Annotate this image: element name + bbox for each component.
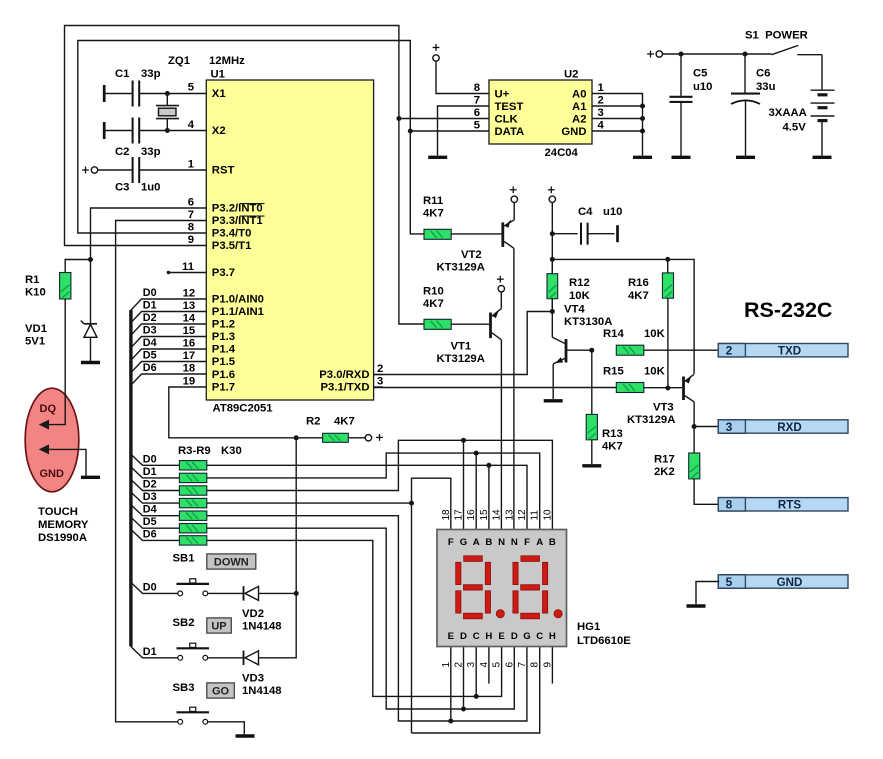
wire R16 to VT3 base node [667, 298, 669, 388]
wire segment D0 row to pins 15/12 [207, 465, 527, 529]
node DATA junction [408, 129, 413, 134]
svg-text:VD1: VD1 [25, 323, 47, 335]
svg-text:P3.7: P3.7 [212, 267, 235, 279]
GND arrow and wire to ground [39, 444, 49, 454]
svg-text:A: A [536, 537, 543, 548]
wire node to R2 [296, 437, 322, 439]
svg-text:B: B [485, 537, 492, 548]
svg-text:5V1: 5V1 [25, 336, 45, 348]
svg-text:F: F [524, 537, 530, 548]
wire P3.7 stub [169, 272, 207, 274]
svg-text:N: N [498, 537, 505, 548]
svg-text:10: 10 [542, 509, 553, 521]
svg-text:2: 2 [598, 94, 604, 106]
svg-text:U+: U+ [495, 88, 510, 100]
svg-text:P3.1/TXD: P3.1/TXD [321, 382, 370, 394]
svg-text:7: 7 [474, 94, 480, 106]
svg-text:18: 18 [441, 509, 452, 521]
svg-text:1N4148: 1N4148 [242, 685, 282, 697]
wire SB3 to ground [208, 722, 244, 734]
svg-text:VT2: VT2 [461, 249, 482, 261]
wire segment D2 row to pins 17/10 [207, 440, 553, 529]
svg-text:A0: A0 [572, 88, 586, 100]
wire R2 node down to VD2/VD3 [295, 438, 297, 594]
node GND junction [640, 129, 645, 134]
wire P1.5 to bus (D5) [131, 362, 206, 373]
svg-text:DS1990A: DS1990A [38, 532, 87, 544]
node C4 junction [550, 231, 555, 236]
svg-text:9: 9 [188, 234, 194, 246]
wire P1.1 to bus (D1) [131, 312, 206, 323]
svg-text:16: 16 [183, 338, 196, 350]
svg-text:C: C [473, 631, 480, 642]
svg-text:C6: C6 [756, 68, 770, 80]
node C6 junction [743, 52, 748, 57]
svg-text:D: D [460, 631, 467, 642]
svg-text:9: 9 [542, 662, 553, 668]
eeprom U2 24C04 [489, 80, 592, 144]
svg-text:P3.3/INT1: P3.3/INT1 [212, 215, 263, 227]
svg-text:VD3: VD3 [242, 673, 264, 685]
wire RXD node to RXD bar [694, 426, 719, 428]
ground C5 [672, 156, 691, 159]
display top pin numbers 18-10 [441, 509, 554, 521]
capacitor C2 33p [103, 122, 106, 139]
capacitor C6 33u (electrolytic) [744, 54, 746, 93]
wire segment D5 row to pins 2/6 [207, 528, 515, 709]
svg-text:8: 8 [474, 82, 480, 94]
svg-text:AT89C2051: AT89C2051 [213, 403, 273, 415]
svg-text:C3: C3 [115, 182, 129, 194]
connector pin 3 RXD [718, 420, 848, 434]
wire pin9 stub (H) [551, 647, 553, 684]
svg-text:15: 15 [479, 509, 490, 521]
wire pin15 [488, 465, 490, 529]
wire P3.1/TXD to R15 [374, 387, 617, 389]
wire VT4 collector to R13 [591, 350, 593, 414]
svg-text:A1: A1 [572, 101, 586, 113]
wire VD1 to ground [90, 337, 92, 361]
svg-text:14: 14 [183, 313, 196, 325]
wire R1 to touch memory DQ [45, 299, 65, 425]
svg-text:12: 12 [183, 288, 196, 300]
svg-text:C2: C2 [115, 146, 129, 158]
svg-text:VD2: VD2 [242, 608, 264, 620]
svg-text:D4: D4 [143, 504, 157, 516]
wire pin2 [463, 647, 465, 710]
button cap UP [207, 618, 232, 633]
button cap GO [207, 683, 235, 698]
svg-text:4K7: 4K7 [602, 441, 623, 453]
wire pin1 [450, 647, 452, 722]
svg-text:4: 4 [188, 119, 195, 131]
diode VD3 1N4148 [244, 651, 259, 665]
svg-text:VT1: VT1 [451, 341, 472, 353]
svg-text:N: N [511, 537, 518, 548]
wire segment D4 row to pins 1/7 [207, 516, 527, 721]
svg-text:P3.2/INT0: P3.2/INT0 [212, 203, 263, 215]
wire R15 to VT3 base [644, 387, 682, 389]
wire VD2 node to VD3 [259, 593, 296, 657]
svg-text:1: 1 [188, 158, 194, 170]
svg-text:8: 8 [726, 498, 733, 512]
wire pin17 [463, 440, 465, 529]
svg-text:10K: 10K [644, 328, 666, 340]
svg-text:H: H [485, 631, 492, 642]
svg-text:2: 2 [454, 662, 465, 668]
node pin2 junction [461, 707, 466, 712]
ground VT4 [544, 399, 563, 402]
U1 pin name labels [212, 88, 264, 394]
resistor R10 4K7 [424, 319, 451, 329]
svg-text:u10: u10 [693, 81, 712, 93]
svg-text:6: 6 [504, 662, 515, 668]
wire P3.5/T1 loop to R10 (pin 9 net) [65, 26, 425, 325]
ground U2 [633, 156, 652, 159]
svg-text:A2: A2 [572, 113, 586, 125]
wire U2 A0-GND to ground rail [592, 94, 643, 156]
svg-text:D2: D2 [143, 312, 157, 324]
svg-text:2K2: 2K2 [654, 466, 675, 478]
terminal +V for U2 U+ [433, 44, 440, 61]
resistor R12 10K [551, 259, 553, 273]
svg-text:3: 3 [598, 107, 604, 119]
svg-text:7: 7 [188, 209, 194, 221]
svg-text:RXD: RXD [777, 421, 801, 434]
svg-text:D3: D3 [143, 325, 157, 337]
svg-text:4K7: 4K7 [423, 208, 444, 220]
svg-text:2: 2 [726, 344, 733, 358]
wire +V to U+ [436, 61, 489, 94]
svg-text:33p: 33p [141, 146, 161, 158]
wire P3.2/INT0 to R1/VD1 node [91, 208, 207, 260]
transistor VT2 KT3129A (PNP) [503, 202, 514, 248]
overline INT0 [240, 203, 265, 205]
wire GND bar to ground [696, 582, 719, 605]
svg-text:MEMORY: MEMORY [38, 519, 89, 531]
wire R17 to RTS bar [694, 479, 719, 504]
resistor R7 (array row D4) [131, 505, 180, 516]
resistor R8 (array row D5) [131, 517, 180, 528]
ground SB3 [236, 734, 255, 737]
ground C6 [736, 156, 755, 159]
node A2 junction [640, 116, 645, 121]
svg-text:RTS: RTS [778, 499, 801, 512]
svg-text:P1.0/AIN0: P1.0/AIN0 [212, 294, 264, 306]
svg-text:16: 16 [466, 509, 477, 521]
svg-text:P1.7: P1.7 [212, 382, 235, 394]
svg-text:R11: R11 [423, 195, 443, 207]
svg-text:P1.6: P1.6 [212, 369, 235, 381]
button cap DOWN [207, 554, 256, 569]
microcontroller U1 AT89C2051 [206, 80, 373, 400]
wire node to R1 [65, 260, 90, 273]
svg-text:X1: X1 [212, 88, 226, 100]
svg-text:11: 11 [530, 510, 541, 521]
svg-text:DQ: DQ [40, 403, 57, 415]
svg-text:17: 17 [454, 509, 465, 521]
node X1 junction [165, 91, 170, 96]
svg-text:K30: K30 [221, 445, 242, 457]
svg-text:14: 14 [492, 509, 503, 521]
svg-text:D1: D1 [143, 300, 157, 312]
decimal point 1 [496, 610, 504, 618]
svg-text:DATA: DATA [495, 126, 525, 138]
wire pin3 [475, 647, 477, 697]
resistor R1 K10 [60, 273, 71, 300]
wire segment D1 row to pins 16/11 [207, 453, 540, 529]
resistor R2 4K7 [323, 433, 349, 442]
svg-text:E: E [448, 631, 455, 642]
node X2 junction [165, 128, 170, 133]
wire SB1 to VD2 [208, 592, 243, 594]
push button SB3 [177, 707, 210, 724]
seven-segment digits 8.8. [456, 556, 491, 619]
ground battery [813, 156, 832, 159]
svg-text:6: 6 [188, 197, 194, 209]
wire node to VD1 [90, 260, 92, 324]
wire VT1 collector to display pin14 [500, 340, 502, 530]
terminal +V for RST [82, 167, 98, 174]
svg-text:3: 3 [377, 376, 383, 388]
svg-text:19: 19 [183, 376, 196, 388]
node pin3 junction [474, 694, 479, 699]
svg-text:GND: GND [561, 126, 586, 138]
svg-text:P1.2: P1.2 [212, 319, 235, 331]
svg-text:P1.5: P1.5 [212, 356, 235, 368]
svg-text:D0: D0 [143, 453, 157, 465]
svg-text:1N4148: 1N4148 [242, 621, 282, 633]
svg-text:4: 4 [598, 119, 605, 131]
transistor VT4 KT3130A (NPN) [552, 312, 592, 364]
display top pin letters [448, 537, 556, 548]
display bottom pin numbers 1-9 [441, 662, 554, 668]
wire P1.6 to bus (D6) [131, 374, 206, 385]
wire pin4 stub (H) [488, 647, 490, 684]
svg-text:P1.4: P1.4 [212, 344, 236, 356]
svg-text:P1.3: P1.3 [212, 331, 235, 343]
wire P1.7 to R2 node [169, 387, 296, 438]
capacitor C1 33p [103, 85, 106, 102]
node pin16 junction [474, 451, 479, 456]
svg-text:R1: R1 [25, 274, 39, 286]
wire R14 to TXD bar [644, 349, 719, 351]
node CLK junction [396, 116, 401, 121]
svg-text:TEST: TEST [495, 101, 524, 113]
svg-text:R2: R2 [306, 416, 320, 428]
svg-text:VT3: VT3 [653, 402, 674, 414]
resistor R5 (array row D2) [131, 480, 180, 491]
U1 left pin numbers [182, 82, 196, 388]
resistor R6 (array row D3) [131, 492, 180, 503]
svg-text:D0: D0 [143, 581, 157, 593]
node pin1 junction [448, 719, 453, 724]
svg-text:E: E [498, 631, 505, 642]
svg-text:13: 13 [504, 509, 515, 521]
terminal +V supply rail [647, 51, 662, 58]
svg-text:D4: D4 [143, 337, 157, 349]
svg-text:F: F [448, 537, 454, 548]
svg-text:11: 11 [182, 261, 194, 273]
push button SB1 [177, 579, 210, 596]
wire CLK to U2 [399, 118, 489, 120]
svg-text:12MHz: 12MHz [209, 55, 245, 67]
svg-text:GND: GND [40, 468, 65, 480]
svg-text:R17: R17 [654, 454, 675, 466]
svg-text:P3.5/T1: P3.5/T1 [212, 240, 252, 252]
pin separator ticks right [374, 374, 383, 376]
switch S1 POWER [772, 45, 799, 54]
push button SB2 [177, 643, 210, 660]
resistor R4 (array row D1) [131, 467, 180, 478]
wire RXD node to R17 [693, 427, 695, 454]
wire R11 to VT2 base [451, 233, 501, 235]
resistor R3 (array row D0) [131, 454, 180, 465]
diode VD2 1N4148 [244, 586, 259, 600]
svg-text:D3: D3 [143, 491, 157, 503]
svg-text:A: A [473, 537, 480, 548]
svg-text:H: H [549, 631, 556, 642]
resistor R15 10K [616, 383, 644, 393]
crystal ZQ1 12MHz [156, 94, 179, 131]
svg-text:KT3129A: KT3129A [437, 353, 485, 365]
svg-text:4.5V: 4.5V [783, 122, 807, 134]
resistor R17 2K2 [689, 453, 700, 479]
svg-text:10K: 10K [569, 290, 591, 302]
svg-text:K10: K10 [25, 287, 46, 299]
node C5 junction [679, 52, 684, 57]
svg-text:2: 2 [377, 363, 383, 375]
svg-text:P3.4/T0: P3.4/T0 [212, 228, 252, 240]
wire VT3 collector to RXD node [693, 402, 695, 427]
svg-text:4K7: 4K7 [423, 298, 444, 310]
svg-text:C: C [536, 631, 543, 642]
wire R12 to VT4 base node [551, 299, 553, 312]
svg-text:D6: D6 [143, 362, 157, 374]
wire supply rail to switch S1 [662, 53, 771, 55]
terminal +V R2 [348, 437, 365, 439]
node pin15 junction [486, 463, 491, 468]
svg-text:TOUCH: TOUCH [38, 506, 78, 518]
svg-text:KT3129A: KT3129A [437, 262, 485, 274]
display bottom pin letters [448, 631, 556, 642]
svg-text:GND: GND [777, 576, 803, 589]
svg-text:10K: 10K [644, 366, 666, 378]
wire P1.4 to bus (D4) [131, 349, 206, 360]
node VT3 base junction [665, 386, 670, 391]
svg-text:R3-R9: R3-R9 [178, 445, 211, 457]
svg-text:5: 5 [474, 119, 480, 131]
svg-text:UP: UP [211, 621, 226, 633]
resistor R16 4K7 [667, 259, 669, 273]
resistor R13 4K7 [586, 414, 597, 440]
overline INT1 [240, 215, 265, 217]
svg-text:3XAAA: 3XAAA [769, 107, 807, 119]
svg-text:1: 1 [441, 662, 452, 668]
svg-text:P1.1/AIN1: P1.1/AIN1 [212, 306, 264, 318]
node R12/R16 rail junction [550, 257, 555, 262]
svg-text:4K7: 4K7 [334, 416, 355, 428]
svg-text:12: 12 [517, 509, 528, 521]
svg-text:R14: R14 [603, 328, 624, 340]
svg-text:G: G [523, 631, 530, 642]
svg-text:X2: X2 [212, 125, 226, 137]
svg-text:G: G [460, 537, 467, 548]
svg-text:B: B [549, 537, 556, 548]
resistor R14 10K [616, 345, 644, 355]
wire P1.2 to bus (D2) [131, 324, 206, 335]
ground RS-232 GND [687, 604, 706, 607]
svg-text:8: 8 [188, 222, 194, 234]
svg-text:GO: GO [212, 686, 230, 698]
battery 3XAAA 4.5V [811, 55, 835, 156]
DQ arrow [39, 420, 49, 430]
svg-text:8: 8 [530, 662, 541, 668]
ground TEST [428, 156, 447, 159]
wire R13 to ground [591, 440, 593, 464]
svg-text:33p: 33p [141, 68, 161, 80]
wire TEST to ground [438, 106, 490, 156]
svg-text:1u0: 1u0 [141, 182, 160, 194]
wire +V rail to R16 and VT3 emitter [552, 259, 694, 374]
wire P3.4/T0 loop to R11 (pin 8 net) [78, 41, 424, 234]
svg-text:D5: D5 [143, 516, 157, 528]
svg-text:RS-232C: RS-232C [744, 298, 832, 322]
capacitor C4 u10 [552, 233, 577, 235]
U2 pin names [495, 88, 587, 138]
wire VT2 collector to display pin13 [513, 248, 515, 529]
svg-text:24C04: 24C04 [545, 147, 579, 159]
ground touch memory [81, 476, 100, 479]
svg-text:RST: RST [212, 165, 235, 177]
svg-text:13: 13 [183, 300, 196, 312]
display HG1 LTD6610E body [437, 530, 567, 647]
terminal +V VT1 emitter [497, 276, 505, 292]
svg-text:D1: D1 [143, 466, 157, 478]
connector pin 2 TXD [718, 344, 848, 358]
node VT4 collector junction [589, 348, 594, 353]
wire P1.0 to bus (D0) [131, 299, 206, 310]
svg-text:U1: U1 [211, 69, 225, 81]
wire D1 to SB2 [131, 647, 178, 658]
svg-text:KT3129A: KT3129A [627, 414, 675, 426]
node VD2 junction [294, 591, 299, 596]
wire C3 to RST [140, 169, 206, 171]
wire VT4 emitter to ground [552, 364, 554, 399]
capacitor C3 1u0 [97, 169, 131, 171]
zener diode VD1 5V1 [81, 321, 97, 338]
ground VD1 [81, 361, 100, 364]
svg-text:7: 7 [517, 662, 528, 668]
wire segment D6 row to pins 3/5 [207, 540, 502, 696]
svg-text:4K7: 4K7 [628, 290, 649, 302]
svg-text:33u: 33u [756, 81, 776, 93]
svg-text:D5: D5 [143, 350, 157, 362]
svg-text:R13: R13 [602, 428, 623, 440]
node D3 junction [409, 501, 414, 506]
svg-text:R10: R10 [423, 286, 444, 298]
svg-text:SB3: SB3 [173, 682, 195, 694]
svg-text:SB2: SB2 [173, 617, 195, 629]
transistor VT1 KT3129A (PNP) [491, 292, 502, 340]
svg-text:LTD6610E: LTD6610E [577, 635, 631, 647]
terminal +V C4 rail [548, 186, 556, 202]
bus D0-D6 (thick) [129, 310, 132, 647]
svg-text:R15: R15 [603, 366, 624, 378]
svg-text:6: 6 [474, 107, 480, 119]
svg-text:R16: R16 [628, 277, 649, 289]
svg-text:ZQ1: ZQ1 [168, 55, 190, 67]
